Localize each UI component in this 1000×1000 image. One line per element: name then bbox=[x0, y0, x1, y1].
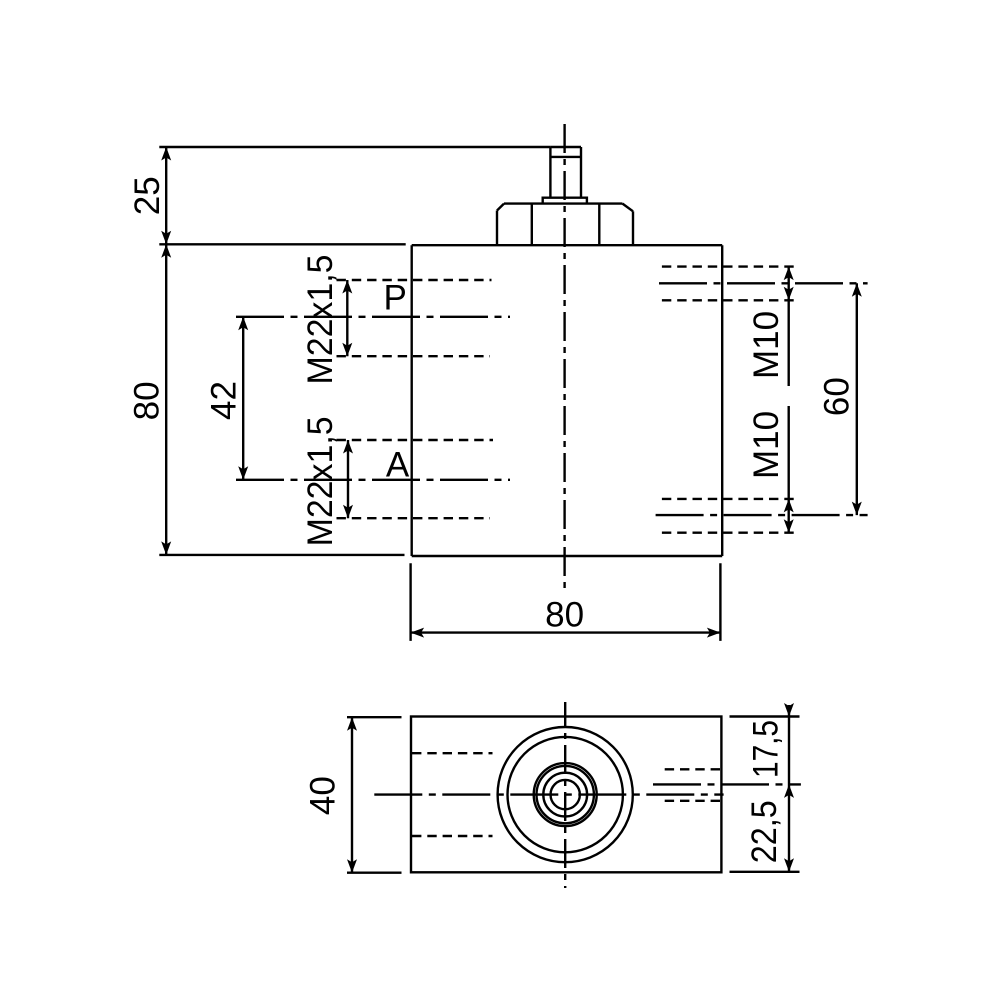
svg-text:40: 40 bbox=[303, 776, 342, 815]
port A center line bbox=[236, 479, 510, 481]
stem top edge bbox=[550, 146, 581, 148]
hex nut right facet line bbox=[598, 204, 600, 245]
dimension line M22x1,5 P bbox=[346, 280, 348, 356]
hex nut right chamfer bbox=[623, 204, 634, 212]
extension line body top bbox=[159, 243, 405, 245]
counterbore circle bbox=[543, 773, 587, 817]
svg-text:22,5: 22,5 bbox=[745, 800, 784, 863]
svg-text:60: 60 bbox=[817, 377, 856, 416]
arrow M10 bottom lower bbox=[784, 519, 794, 533]
M10 bottom hole upper hidden line bbox=[662, 498, 799, 500]
svg-text:80: 80 bbox=[545, 595, 584, 634]
boss outer circle bbox=[498, 727, 633, 862]
dimension line 25 bbox=[165, 147, 167, 244]
arrow 80 width right bbox=[707, 628, 721, 638]
dimension line M10 bottom bbox=[788, 406, 790, 533]
dimension line 17,5 and 22,5 bbox=[788, 705, 790, 872]
svg-text:P: P bbox=[384, 279, 407, 318]
arrow 60 top bbox=[852, 283, 862, 297]
arrow M22 A bottom bbox=[343, 505, 353, 519]
hex nut left chamfer bbox=[497, 204, 504, 211]
svg-text:M22x1,5: M22x1,5 bbox=[301, 255, 340, 385]
M10 top hole center line bbox=[659, 282, 868, 284]
stem cap line bbox=[550, 156, 581, 158]
bottom view vertical center line bbox=[564, 702, 566, 888]
M10 top hole upper hidden line bbox=[662, 265, 799, 267]
arrow 40 bottom bbox=[347, 859, 357, 873]
stem left edge bbox=[549, 147, 551, 198]
extension line body left bbox=[409, 563, 411, 641]
hex nut left facet line bbox=[531, 204, 533, 245]
bottom view: valve body outline bbox=[411, 717, 721, 873]
svg-text:17,5: 17,5 bbox=[747, 720, 786, 778]
thread inner circle bbox=[537, 766, 594, 823]
svg-text:M10: M10 bbox=[747, 311, 786, 379]
boss inner circle bbox=[508, 737, 623, 852]
bottom view horizontal center line bbox=[374, 793, 723, 795]
arrow 22,5 bottom bbox=[784, 858, 794, 872]
arrow 25 top bbox=[161, 147, 171, 161]
extension line bottom view bottom bbox=[347, 872, 402, 874]
extension line body right bbox=[719, 563, 721, 641]
port P lower hidden line bbox=[337, 355, 491, 357]
arrow 42 bottom bbox=[238, 466, 248, 480]
hex nut right edge bbox=[632, 211, 634, 244]
stem right edge bbox=[580, 147, 582, 198]
svg-text:M10: M10 bbox=[747, 411, 786, 479]
svg-text:80: 80 bbox=[128, 381, 167, 420]
dimension line M22x1,5 A bbox=[347, 440, 349, 518]
dimension line 60 bbox=[856, 283, 858, 515]
extension line stem top bbox=[159, 146, 550, 148]
arrow M22 P top bbox=[342, 280, 352, 294]
dimension line 40 bbox=[351, 717, 353, 873]
arrow 42 top bbox=[238, 317, 248, 331]
extension line body bottom bbox=[159, 554, 404, 556]
main view vertical center line bbox=[563, 124, 565, 590]
svg-text:25: 25 bbox=[128, 176, 167, 215]
side hole hidden line lower bbox=[665, 800, 720, 802]
M10 bottom hole lower hidden line bbox=[662, 532, 799, 534]
hex nut left edge bbox=[496, 211, 498, 245]
extension line bottom view bottom right bbox=[730, 871, 800, 873]
main view: valve body front outline bbox=[412, 245, 723, 556]
arrow 80 top bbox=[161, 244, 171, 257]
arrow 80 width left bbox=[411, 628, 425, 638]
dimension line 42 bbox=[242, 317, 244, 480]
hex nut top edge bbox=[504, 202, 623, 204]
extension line bottom view top bbox=[347, 716, 402, 718]
port A lower hidden line bbox=[337, 517, 491, 519]
dimension line 80 width bbox=[411, 631, 721, 633]
arrow M10 top lower bbox=[784, 287, 794, 301]
extension line bottom view top right bbox=[730, 715, 800, 717]
port A upper hidden line bbox=[337, 439, 494, 441]
pilot hole circle bbox=[551, 780, 580, 809]
svg-text:42: 42 bbox=[204, 381, 243, 420]
thread outer circle bbox=[534, 763, 597, 826]
arrow 25 bottom bbox=[161, 231, 171, 245]
side hole hidden line upper bbox=[665, 768, 720, 770]
port P upper hidden line bbox=[337, 279, 492, 281]
arrow 60 bottom bbox=[852, 502, 862, 516]
M10 bottom hole center line bbox=[656, 514, 868, 516]
arrow shared 17,5/22,5 bbox=[784, 784, 794, 798]
svg-text:A: A bbox=[386, 446, 410, 485]
arrow M22 P bottom bbox=[342, 343, 352, 357]
dimension line 80 height bbox=[165, 244, 167, 555]
dimension line M10 top bbox=[788, 267, 790, 386]
port P center line bbox=[236, 316, 510, 318]
arrow M10 bottom upper bbox=[784, 499, 794, 513]
left port hidden line upper bbox=[412, 752, 493, 754]
M10 top hole lower hidden line bbox=[662, 299, 799, 301]
svg-text:M22x1,5: M22x1,5 bbox=[301, 416, 340, 546]
arrow 40 top bbox=[347, 717, 357, 731]
stem collar washer bbox=[543, 198, 587, 204]
arrow 80 bottom bbox=[161, 541, 171, 555]
arrow 17,5 top outside bbox=[784, 703, 794, 717]
arrow M22 A top bbox=[343, 440, 353, 454]
arrow M10 top upper bbox=[784, 267, 794, 281]
left port hidden line lower bbox=[412, 835, 493, 837]
side hole center line bbox=[653, 783, 801, 785]
